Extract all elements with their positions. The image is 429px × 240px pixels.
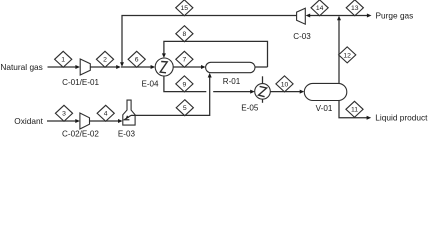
wire E-03 outlet to R-01 bottom <box>131 76 210 115</box>
wire E-05 to V-01 <box>270 91 300 93</box>
stream diamond 9 <box>176 76 193 92</box>
svg-text:Liquid product: Liquid product <box>375 113 428 123</box>
heat exchanger E-05 <box>255 84 271 100</box>
stream diamond 7 <box>176 51 193 67</box>
stream diamond 15 <box>176 0 193 16</box>
arrow into mix junction <box>116 65 121 69</box>
compressor C-02/E-02 <box>80 113 90 129</box>
svg-text:12: 12 <box>343 52 351 59</box>
svg-text:R-01: R-01 <box>223 77 241 86</box>
node purge junction <box>309 15 368 17</box>
stream diamond 8 <box>176 26 193 42</box>
stream diamond 3 <box>55 105 72 121</box>
svg-text:C-03: C-03 <box>293 32 311 41</box>
svg-text:2: 2 <box>103 57 107 64</box>
stream diamond 10 <box>276 76 293 92</box>
vessel V-01 <box>304 83 347 100</box>
svg-text:3: 3 <box>62 111 66 118</box>
svg-text:11: 11 <box>351 107 358 114</box>
arrow into E-04 left <box>151 65 156 69</box>
arrow into C-03 right side <box>306 14 311 18</box>
svg-text:8: 8 <box>183 31 187 38</box>
svg-text:14: 14 <box>316 5 324 12</box>
heat exchanger E-04 <box>155 58 173 76</box>
arrow down into E-04 top <box>162 53 166 58</box>
compressor C-03 <box>297 8 306 24</box>
E-03 internal zigzag <box>124 115 131 119</box>
svg-text:E-05: E-05 <box>241 103 259 112</box>
stream diamond 1 <box>55 51 72 67</box>
wire C-01 to E-04 <box>90 66 117 68</box>
arrow into C-01 <box>75 65 80 69</box>
wire oxidant inlet <box>47 120 76 122</box>
junction arrow down into natural gas line <box>120 62 124 67</box>
wire stream 8 row from R-01 outlet to E-04 top <box>164 41 268 67</box>
stream diamond 4 <box>97 105 114 121</box>
wire recycle top line C-03 outlet to junction <box>122 16 297 64</box>
stream diamond 11 <box>346 101 363 117</box>
reactor R-01 <box>206 62 255 72</box>
svg-text:6: 6 <box>135 57 139 64</box>
stream diamond 13 <box>346 0 363 16</box>
wire E-04 bottom to E-05 <box>164 76 206 92</box>
arrow liquid product <box>367 116 372 120</box>
svg-text:C-02/E-02: C-02/E-02 <box>62 130 99 139</box>
E-05 top stub <box>262 76 264 83</box>
arrow purge gas <box>367 14 372 18</box>
arrow into C-02 <box>75 119 80 123</box>
wire stream 9 after crossing <box>213 91 251 93</box>
wire R-01 outlet to corner <box>255 66 268 68</box>
stream diamond 12 <box>339 47 356 63</box>
svg-text:10: 10 <box>281 81 289 88</box>
svg-text:Purge gas: Purge gas <box>376 10 414 20</box>
svg-text:7: 7 <box>183 57 187 64</box>
svg-text:9: 9 <box>183 81 187 88</box>
svg-text:Natural gas: Natural gas <box>0 62 42 72</box>
arrow into R-01 <box>201 65 206 69</box>
stream diamond 2 <box>96 51 113 67</box>
svg-text:C-01/E-01: C-01/E-01 <box>62 78 99 87</box>
E-05 bottom stub <box>262 99 264 103</box>
svg-text:Oxidant: Oxidant <box>14 116 43 126</box>
arrow up at purge junction <box>337 16 341 21</box>
heater E-03 (furnace) <box>123 100 135 125</box>
stream diamond 6 <box>128 51 145 67</box>
wire E-04 to R-01 <box>173 66 202 68</box>
compressor C-01/E-01 <box>80 59 90 75</box>
arrow into E-05 left <box>250 90 255 94</box>
svg-text:4: 4 <box>104 111 108 118</box>
svg-text:1: 1 <box>61 57 65 64</box>
wire V-01 liquid down <box>339 101 368 118</box>
wire V-01 vapor up to purge junction <box>338 19 340 83</box>
svg-text:V-01: V-01 <box>316 104 333 113</box>
stream diamond 14 <box>311 0 328 16</box>
svg-text:E-03: E-03 <box>118 130 136 139</box>
stream diamond 5 <box>176 100 193 116</box>
arrow into V-01 <box>300 90 305 94</box>
svg-text:15: 15 <box>181 5 189 12</box>
arrow up into R-01 bottom <box>208 73 212 78</box>
wire junction to E-04 <box>121 66 152 68</box>
arrow into E-03 <box>118 119 123 123</box>
svg-text:5: 5 <box>183 105 187 112</box>
svg-text:13: 13 <box>351 5 359 12</box>
svg-text:E-04: E-04 <box>141 80 159 89</box>
wire natural gas inlet <box>48 66 77 68</box>
wire C-02 to E-03 <box>90 120 120 122</box>
